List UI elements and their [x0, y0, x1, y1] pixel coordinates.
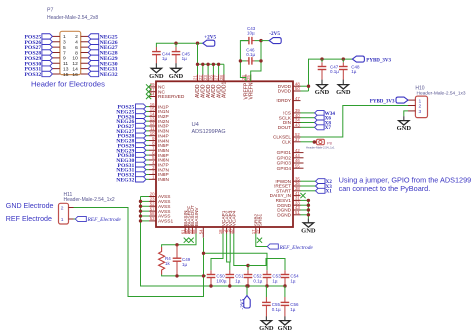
- junction C49 bottom: [175, 274, 178, 277]
- no-connect BIASOUT: [189, 238, 194, 243]
- pin AVDD1 (28): [223, 75, 225, 82]
- connector P8 jumper: [313, 140, 317, 144]
- net label POS31 (P7): [42, 66, 53, 71]
- capacitor C44: [155, 47, 157, 52]
- wire VREFN net: [251, 41, 261, 82]
- connector H11 header: [59, 203, 69, 224]
- svg-text:AVDD1: AVDD1: [222, 81, 228, 98]
- net label NEG31 (U4): [136, 167, 147, 172]
- capacitor C49: [173, 257, 182, 259]
- net label NEG28 (P7): [88, 50, 99, 55]
- junction AVSS: [139, 200, 142, 203]
- wire bias top: [162, 234, 196, 248]
- pin GPIO3 (46): [293, 162, 304, 164]
- pin DGND (33): [293, 204, 301, 206]
- pin IN8P (2): [149, 174, 156, 176]
- pin IN4N (9): [149, 140, 156, 142]
- svg-text:REF_Electrode: REF_Electrode: [279, 245, 314, 251]
- P7 pin 14: [81, 68, 89, 70]
- no-connect DAISY_IN: [300, 193, 305, 198]
- P7 pin 2: [81, 35, 89, 37]
- wire AVDD rail: [198, 43, 224, 64]
- wire C52 to C54: [248, 259, 285, 271]
- pin DVDD (48): [293, 85, 301, 87]
- pin !DRDY (47): [293, 100, 301, 102]
- pin DOUT (43): [293, 126, 301, 128]
- pin BIASIN (61): [184, 227, 186, 234]
- pin DGND (43): [293, 209, 301, 211]
- pin IN2P (14): [149, 115, 156, 117]
- svg-text:1µ: 1µ: [182, 56, 188, 61]
- pin IN4P (10): [149, 135, 156, 137]
- svg-text:GND: GND: [259, 325, 274, 332]
- net label X1: [316, 188, 326, 193]
- svg-text:RESERVED: RESERVED: [158, 94, 185, 100]
- svg-text:4: 4: [75, 40, 78, 46]
- wire CLKSEL to H10 pin2: [301, 106, 416, 138]
- net label NEG28 (U4): [136, 138, 147, 143]
- svg-text:POS32: POS32: [24, 72, 41, 78]
- svg-text:GND: GND: [169, 73, 184, 80]
- net label NEG32 (U4): [136, 177, 147, 182]
- junction C45 top: [174, 42, 177, 45]
- svg-text:53: 53: [150, 216, 155, 221]
- svg-text:1µ: 1µ: [351, 69, 357, 74]
- svg-text:19: 19: [255, 229, 260, 234]
- wire AVSS net to -2V5 bus: [141, 197, 212, 287]
- supply PYBD_3V3 (top): [352, 56, 364, 62]
- pin NC (27): [149, 91, 156, 93]
- svg-text:1µ: 1µ: [235, 278, 241, 283]
- svg-text:GND: GND: [278, 325, 293, 332]
- P7 pin 8: [81, 52, 89, 54]
- svg-text:!DRDY: !DRDY: [276, 98, 291, 103]
- capacitor C48: [342, 59, 344, 62]
- svg-text:14: 14: [72, 66, 78, 72]
- wire VCAP2 to C51: [227, 234, 230, 263]
- svg-text:0.1µ: 0.1µ: [246, 52, 255, 57]
- pin IN7P (4): [149, 164, 156, 166]
- svg-text:15: 15: [63, 72, 69, 78]
- net label X7: [315, 125, 325, 130]
- net label POS25 (U4): [136, 104, 147, 109]
- svg-text:37: 37: [295, 137, 300, 142]
- svg-text:DGND: DGND: [277, 212, 291, 217]
- svg-text:10: 10: [229, 229, 234, 234]
- pin VCAP2 (2): [226, 227, 228, 234]
- pin IN5P (8): [149, 144, 156, 146]
- net label POS27 (U4): [136, 123, 147, 128]
- svg-text:1µ: 1µ: [162, 56, 168, 61]
- P7 pin 16: [81, 73, 89, 75]
- net label W34: [315, 110, 325, 115]
- pin GPIO1 (42): [293, 152, 304, 154]
- svg-text:AVSS1: AVSS1: [158, 219, 173, 225]
- net label NEG29 (U4): [136, 148, 147, 153]
- net label NEG25 (P7): [88, 34, 99, 39]
- pin RESERVED (64): [149, 96, 156, 98]
- net label X8: [315, 120, 325, 125]
- wire X2: [301, 180, 316, 182]
- wire X1: [301, 190, 316, 192]
- net label POS30 (U4): [136, 152, 147, 157]
- svg-text:0.1µ: 0.1µ: [253, 278, 262, 283]
- svg-text:5: 5: [63, 45, 66, 51]
- pin SCLK (40): [293, 117, 301, 119]
- svg-text:2: 2: [419, 104, 422, 110]
- svg-text:28: 28: [219, 75, 224, 80]
- svg-text:CLK: CLK: [282, 139, 292, 144]
- pin AVSS (23): [149, 200, 156, 202]
- pin IN3N (11): [149, 130, 156, 132]
- pin IN1N (15): [149, 110, 156, 112]
- pin VREFP (24): [245, 75, 247, 82]
- svg-text:2: 2: [61, 206, 64, 212]
- pin RESV1 (31): [293, 199, 301, 201]
- svg-text:X7: X7: [325, 125, 332, 131]
- wire W34: [301, 112, 315, 114]
- P7 pin 5: [52, 46, 60, 48]
- wire X7: [301, 126, 315, 128]
- svg-text:NEG32: NEG32: [116, 177, 134, 183]
- H10 pin 1: [408, 99, 415, 101]
- pin GPIO4 (55): [293, 167, 304, 169]
- pin GPIO2 (44): [293, 157, 304, 159]
- capacitor C47: [321, 59, 323, 62]
- svg-text:58: 58: [191, 229, 196, 234]
- P7 pin 12: [81, 62, 89, 64]
- net label REF_Electrode (SRB2): [267, 244, 278, 249]
- net label X6: [315, 115, 325, 120]
- capacitor C43: [248, 37, 250, 45]
- pin VCAP1 (18): [222, 227, 224, 234]
- ground GND (H10): [403, 116, 405, 120]
- net label NEG25 (U4): [136, 109, 147, 114]
- supply -2V5 (bus): [246, 286, 248, 296]
- svg-text:VCAP4: VCAP4: [232, 210, 238, 226]
- svg-text:GND: GND: [397, 125, 412, 132]
- pin AVSS (20): [149, 196, 156, 198]
- svg-text:REF Electrode: REF Electrode: [6, 215, 52, 223]
- capacitor C54: [284, 270, 286, 274]
- no-connect BIASIN: [184, 238, 189, 243]
- net label POS29 (P7): [42, 55, 53, 60]
- wire VCAP3 to C51: [229, 234, 231, 271]
- net label POS32 (P7): [42, 71, 53, 76]
- wire GND electrode to bias: [74, 208, 204, 297]
- svg-text:PYBD_3V3: PYBD_3V3: [366, 58, 391, 63]
- net label POS26 (U4): [136, 114, 147, 119]
- svg-text:1µ: 1µ: [290, 278, 296, 283]
- svg-text:8: 8: [75, 50, 78, 56]
- svg-text:2: 2: [75, 34, 78, 40]
- pin DVDD (50): [293, 90, 301, 92]
- wire -2V5 bus: [141, 285, 286, 287]
- junction DGND: [307, 199, 310, 202]
- svg-text:H10: H10: [415, 85, 424, 91]
- svg-text:10: 10: [72, 56, 78, 62]
- pin DGND (51): [293, 214, 301, 216]
- wire bias bottom: [162, 275, 206, 276]
- net label NEG31 (P7): [88, 66, 99, 71]
- svg-text:IN8N: IN8N: [158, 177, 169, 183]
- pin IN2N (13): [149, 120, 156, 122]
- svg-text:12: 12: [72, 61, 78, 67]
- svg-text:Header-Male-2.54_1x2: Header-Male-2.54_1x2: [64, 197, 115, 203]
- resistor R4: [159, 247, 165, 275]
- net label POS30 (P7): [42, 61, 53, 66]
- pin BIASOUT (59): [191, 227, 193, 234]
- svg-text:100µ: 100µ: [216, 278, 227, 283]
- svg-text:VREFN: VREFN: [248, 82, 254, 99]
- svg-text:GND: GND: [336, 89, 351, 96]
- svg-text:GPIO4: GPIO4: [277, 166, 292, 171]
- svg-text:-2V5: -2V5: [240, 298, 246, 309]
- P7 pin 4: [81, 41, 89, 43]
- ground GND (C56): [284, 316, 286, 320]
- net label POS31 (U4): [136, 162, 147, 167]
- svg-text:43: 43: [295, 123, 300, 128]
- connector P7 header: [60, 31, 81, 74]
- op-amp/IC U4 ADS1299PAG body: [156, 81, 293, 227]
- svg-text:GND: GND: [315, 89, 330, 96]
- svg-text:10µ: 10µ: [247, 30, 255, 35]
- pin VCAP3 (5): [229, 227, 231, 234]
- pin CLK (37): [293, 141, 301, 143]
- wire X3: [301, 185, 316, 187]
- pin !CS (39): [293, 112, 301, 114]
- svg-text:Header-Male-2.54_2x8: Header-Male-2.54_2x8: [47, 15, 98, 21]
- no-connect SRB1: [257, 238, 262, 243]
- junction C46 right: [259, 59, 262, 62]
- net label POS25 (P7): [42, 34, 53, 39]
- pin !RESET (36): [293, 185, 301, 187]
- net label NEG26 (P7): [88, 39, 99, 44]
- net label NEG27 (U4): [136, 128, 147, 133]
- pin AVDD (22): [202, 75, 204, 82]
- svg-text:GND Electrode: GND Electrode: [6, 202, 54, 210]
- net label NEG30 (P7): [88, 61, 99, 66]
- net label POS26 (P7): [42, 39, 53, 44]
- svg-text:55: 55: [295, 163, 300, 168]
- wire DGND net: [301, 199, 309, 201]
- pin DIN (34): [293, 122, 301, 124]
- pin AVDD (27): [218, 75, 220, 82]
- svg-text:ADS1299PAG: ADS1299PAG: [192, 129, 226, 135]
- ground GND (C48): [342, 80, 344, 85]
- wire +2V5 rail: [156, 43, 202, 47]
- svg-text:GND: GND: [149, 73, 164, 80]
- svg-text:22: 22: [198, 75, 203, 80]
- svg-text:6: 6: [75, 45, 78, 51]
- pin BIASREF (60): [188, 227, 190, 234]
- svg-text:1: 1: [419, 98, 422, 104]
- pin AVSS1 (53): [149, 220, 156, 222]
- ground GND (C44): [155, 63, 157, 68]
- pin BIASDRV (54): [202, 227, 204, 238]
- svg-text:1: 1: [63, 34, 66, 40]
- svg-text:1k: 1k: [165, 261, 171, 266]
- svg-text:47: 47: [295, 96, 300, 101]
- svg-text:9: 9: [63, 56, 66, 62]
- pin AVSS (52): [149, 205, 156, 207]
- net label NEG27 (P7): [88, 44, 99, 49]
- pin IN6P (6): [149, 154, 156, 156]
- svg-text:PYBD_3V3: PYBD_3V3: [370, 100, 395, 105]
- svg-text:DVDD: DVDD: [278, 89, 292, 94]
- junction C48 top: [342, 57, 345, 60]
- P7 pin 13: [52, 68, 60, 70]
- junction AVDD rail: [196, 63, 199, 66]
- ground GND (C47): [321, 80, 323, 85]
- svg-text:1µ: 1µ: [272, 278, 278, 283]
- svg-text:51: 51: [295, 210, 300, 215]
- svg-text:23: 23: [203, 75, 208, 80]
- pin IN1P (16): [149, 106, 156, 108]
- pin AVSS (58): [149, 215, 156, 217]
- svg-text:P7: P7: [47, 8, 53, 14]
- wire DVDD pins: [301, 85, 309, 87]
- ground GND (C55): [265, 316, 267, 320]
- junction C43 right: [259, 39, 262, 42]
- svg-text:25: 25: [246, 75, 251, 80]
- svg-text:can connect to the PyBoard.: can connect to the PyBoard.: [339, 184, 431, 193]
- svg-text:27: 27: [214, 75, 219, 80]
- capacitor C50: [210, 270, 212, 274]
- pin AVDD (26): [212, 75, 214, 82]
- capacitor C46: [248, 57, 250, 65]
- ground GND (C45): [175, 63, 177, 68]
- svg-text:50: 50: [295, 86, 300, 91]
- svg-text:REF_Electrode: REF_Electrode: [87, 217, 122, 223]
- svg-text:X1: X1: [326, 189, 333, 195]
- pin IN5N (7): [149, 149, 156, 151]
- supply -2V5 (top): [261, 40, 269, 42]
- capacitor C52: [247, 270, 249, 274]
- junction bias/GND-electrode: [202, 274, 205, 277]
- pin DAISY_IN (41): [293, 195, 301, 197]
- wire H10 pin3 to GND: [404, 111, 408, 116]
- capacitor C53: [266, 270, 268, 274]
- svg-text:13: 13: [63, 66, 69, 72]
- wire C45 lead: [175, 43, 177, 47]
- H10 pin 2: [408, 105, 415, 107]
- wire C53 branch: [204, 253, 268, 270]
- capacitor C45: [175, 47, 177, 52]
- wire SRB2 to REF label: [256, 234, 267, 247]
- pin IN3P (12): [149, 125, 156, 127]
- svg-text:BIASINV: BIASINV: [194, 207, 200, 227]
- connector H10 header: [415, 96, 427, 118]
- pin SRB2 (17): [255, 227, 257, 234]
- P7 pin 6: [81, 46, 89, 48]
- svg-text:3: 3: [63, 40, 66, 46]
- svg-text:16: 16: [72, 72, 78, 78]
- net label REF_Electrode (H11): [74, 218, 76, 220]
- wire VCAP1 to C50: [211, 234, 223, 271]
- svg-text:0.1µ: 0.1µ: [330, 69, 339, 74]
- wire X8: [301, 122, 315, 124]
- capacitor C56: [284, 286, 286, 297]
- junction AVDD branch: [196, 42, 199, 45]
- wire X6: [301, 117, 315, 119]
- svg-text:-2V5: -2V5: [269, 31, 280, 37]
- svg-text:3: 3: [419, 109, 422, 115]
- P7 pin 3: [52, 41, 60, 43]
- pin !PWDN (35): [293, 180, 301, 182]
- svg-text:U4: U4: [192, 122, 200, 128]
- svg-text:NEG32: NEG32: [100, 72, 118, 78]
- capacitor C55: [265, 286, 267, 297]
- svg-text:7: 7: [63, 50, 66, 56]
- pin IN8N (1): [149, 178, 156, 180]
- supply +2V5: [203, 40, 215, 46]
- H11 pin 1: [69, 218, 74, 220]
- H10 pin 3: [408, 110, 415, 112]
- supply PYBD_3V3 (H10): [396, 97, 408, 103]
- P7 pin 7: [52, 52, 60, 54]
- net label X3: [316, 184, 326, 189]
- P7 pin 10: [81, 57, 89, 59]
- net label POS29 (U4): [136, 143, 147, 148]
- pin IN7N (3): [149, 169, 156, 171]
- junction C49 top: [175, 243, 178, 246]
- wire CLK to P8: [301, 141, 314, 143]
- pin CLKSEL (52): [293, 136, 301, 138]
- svg-text:0.1µ: 0.1µ: [272, 307, 281, 312]
- wire PYBD_3V3 rail: [309, 59, 356, 91]
- net label POS27 (P7): [42, 44, 53, 49]
- svg-text:Header for Electrodes: Header for Electrodes: [31, 79, 105, 88]
- ground GND (DGND): [307, 218, 309, 222]
- svg-text:Header-Male-2.54_1x1: Header-Male-2.54_1x1: [306, 146, 335, 150]
- net label X2: [316, 179, 326, 184]
- svg-text:54: 54: [199, 229, 204, 234]
- pin NC (29): [149, 86, 156, 88]
- svg-text:11: 11: [63, 61, 68, 67]
- pin START (38): [293, 190, 301, 192]
- junction DVDD: [307, 85, 310, 88]
- pin AVDD (23): [207, 75, 209, 82]
- net label POS32 (U4): [136, 172, 147, 177]
- P7 pin 1: [52, 35, 60, 37]
- P7 pin 11: [52, 62, 60, 64]
- net label NEG32 (P7): [88, 71, 99, 76]
- junction C46 left: [239, 59, 242, 62]
- pin AVSS (57): [149, 210, 156, 212]
- net label NEG29 (P7): [88, 55, 99, 60]
- pin AVDD (21): [197, 75, 199, 82]
- P7 pin 9: [52, 57, 60, 59]
- svg-text:1: 1: [61, 217, 64, 223]
- svg-text:1µ: 1µ: [182, 262, 188, 267]
- junction C52 top: [246, 264, 249, 267]
- H11 pin 2: [69, 207, 74, 209]
- junction bus: [209, 284, 212, 287]
- net label NEG30 (U4): [136, 157, 147, 162]
- wire VREFP net: [240, 41, 249, 82]
- pin VCAP4 (10): [233, 227, 235, 234]
- junction C47 top: [320, 57, 323, 60]
- pin BIASINV (58): [195, 227, 197, 234]
- junction C53 branch: [202, 252, 205, 255]
- svg-text:GND: GND: [301, 227, 316, 234]
- pin VREFN (25): [250, 75, 252, 82]
- svg-text:DOUT: DOUT: [278, 125, 291, 130]
- svg-text:1µ: 1µ: [290, 307, 296, 312]
- svg-text:SRB1: SRB1: [257, 213, 263, 226]
- net label NEG26 (U4): [136, 119, 147, 124]
